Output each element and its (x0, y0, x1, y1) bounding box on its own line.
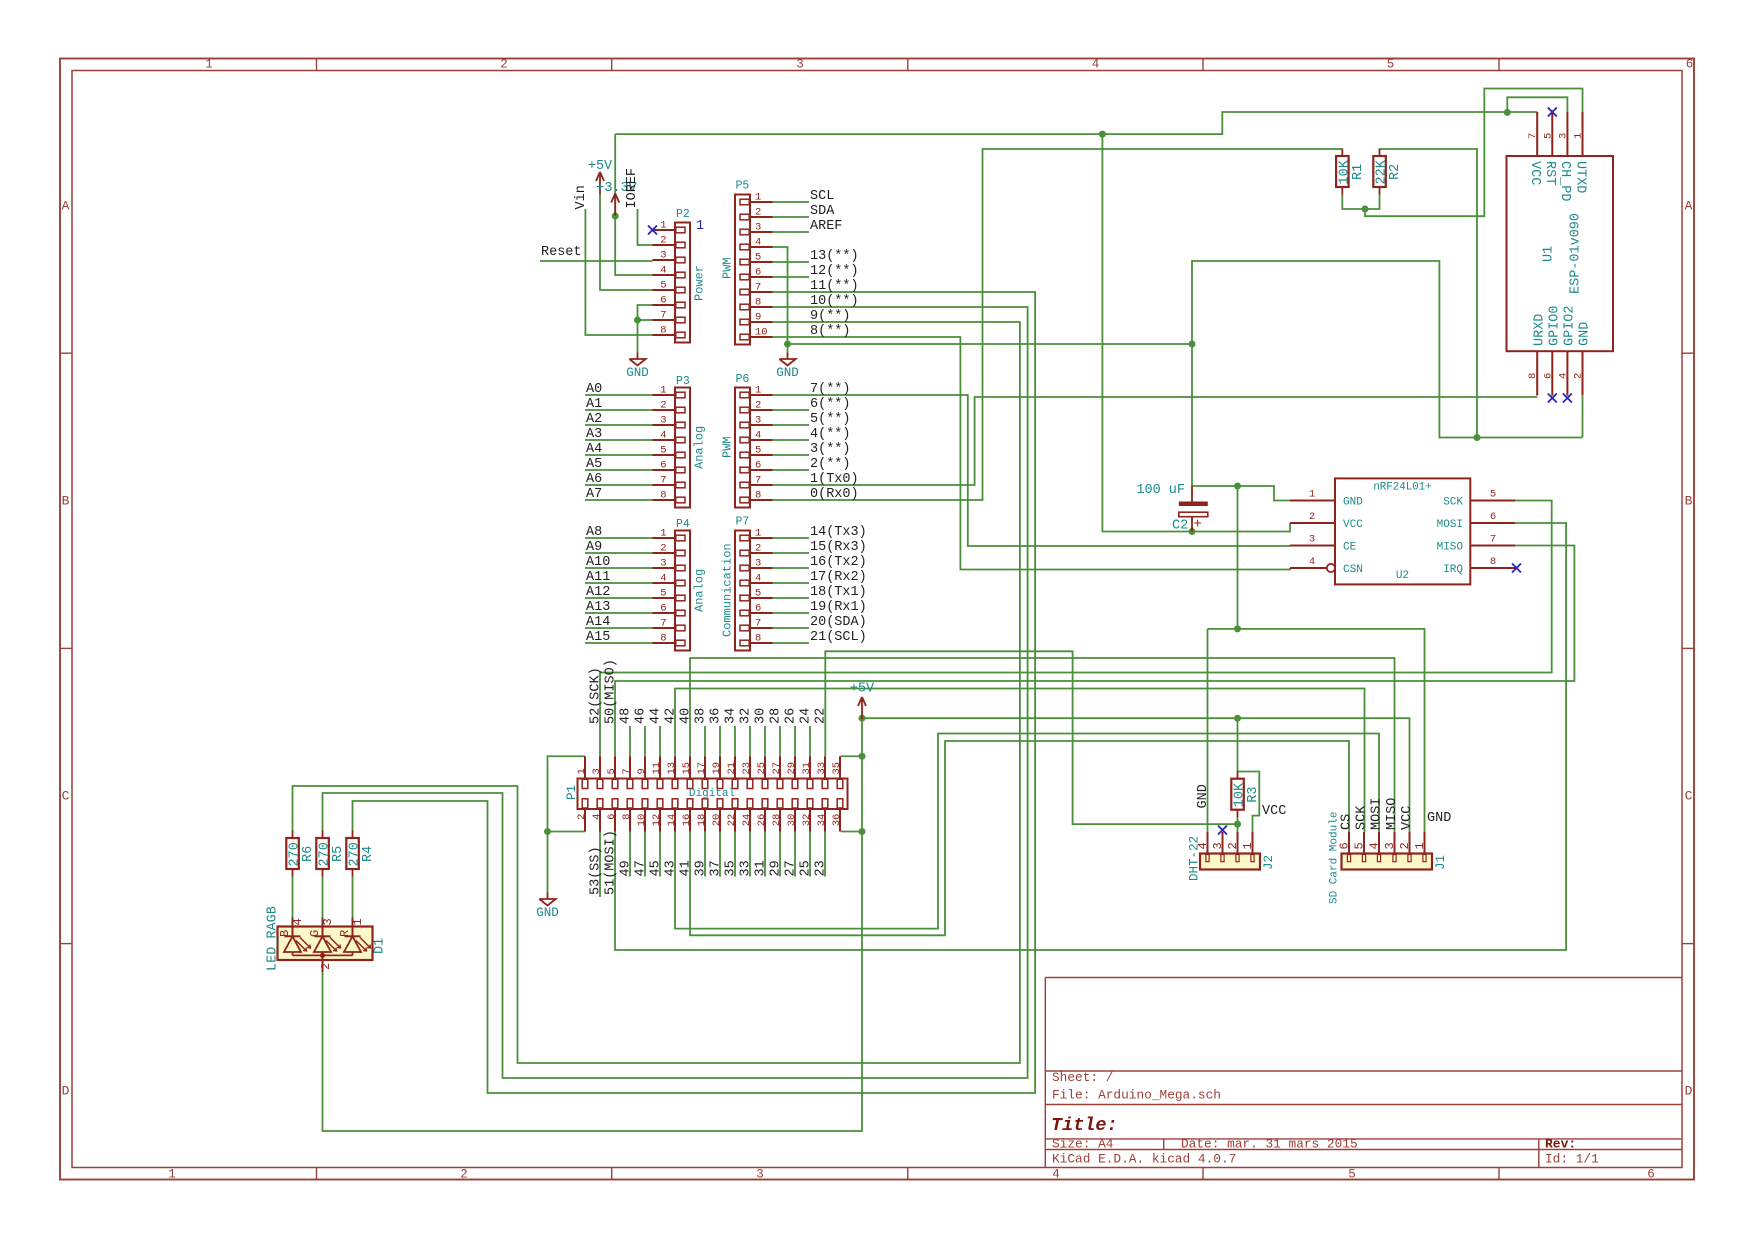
svg-text:GND: GND (1578, 322, 1593, 346)
svg-text:2: 2 (319, 963, 333, 970)
svg-text:J2: J2 (1262, 855, 1276, 870)
svg-text:21(SCL): 21(SCL) (810, 630, 867, 645)
svg-text:39: 39 (694, 860, 709, 876)
svg-text:nRF24L01+: nRF24L01+ (1373, 482, 1431, 494)
svg-text:4: 4 (660, 573, 666, 585)
svg-text:SCK: SCK (1355, 805, 1370, 830)
svg-text:17(Rx2): 17(Rx2) (810, 570, 867, 585)
svg-text:4: 4 (591, 814, 603, 820)
svg-text:22: 22 (726, 814, 738, 827)
svg-text:31: 31 (801, 762, 813, 775)
svg-text:23: 23 (814, 860, 829, 876)
svg-text:2(**): 2(**) (810, 457, 851, 472)
svg-text:0(Rx0): 0(Rx0) (810, 487, 859, 502)
svg-text:5: 5 (755, 588, 761, 600)
svg-text:2: 2 (660, 400, 666, 412)
svg-text:1: 1 (755, 385, 761, 397)
svg-text:50(MISO): 50(MISO) (604, 659, 619, 724)
svg-text:GND: GND (776, 366, 799, 380)
svg-text:A12: A12 (586, 585, 610, 600)
svg-text:R5: R5 (331, 846, 346, 862)
svg-text:Size: A4: Size: A4 (1052, 1136, 1114, 1151)
svg-text:C: C (1685, 789, 1693, 804)
svg-text:47: 47 (634, 860, 649, 876)
svg-text:34: 34 (724, 708, 739, 724)
svg-text:19: 19 (711, 762, 723, 775)
svg-text:4: 4 (1368, 842, 1382, 849)
svg-text:C2: C2 (1172, 519, 1188, 534)
svg-text:KiCad E.D.A. kicad 4.0.7: KiCad E.D.A. kicad 4.0.7 (1052, 1152, 1236, 1167)
svg-text:2: 2 (660, 235, 666, 247)
svg-text:7: 7 (1490, 534, 1496, 546)
svg-text:9: 9 (636, 768, 648, 774)
svg-text:2: 2 (1309, 511, 1315, 523)
svg-text:GND: GND (1343, 497, 1363, 509)
svg-text:2: 2 (460, 1168, 468, 1182)
svg-text:D1: D1 (373, 938, 388, 954)
svg-text:11(**): 11(**) (810, 279, 859, 294)
svg-text:1: 1 (1573, 133, 1585, 139)
svg-text:100 uF: 100 uF (1136, 483, 1185, 498)
svg-text:P7: P7 (736, 516, 750, 529)
svg-text:4: 4 (1092, 58, 1100, 72)
svg-text:13: 13 (666, 762, 678, 775)
svg-text:SDA: SDA (810, 204, 835, 219)
svg-text:PWM: PWM (721, 436, 735, 458)
svg-text:SD Card Module: SD Card Module (1329, 812, 1341, 904)
svg-text:32: 32 (801, 814, 813, 827)
svg-text:A4: A4 (586, 442, 602, 457)
svg-text:5: 5 (1542, 133, 1554, 139)
svg-text:4: 4 (1309, 556, 1315, 568)
svg-text:1: 1 (1413, 842, 1427, 849)
svg-text:IOREF: IOREF (625, 168, 640, 209)
svg-text:2: 2 (755, 207, 761, 219)
svg-text:MOSI: MOSI (1370, 798, 1385, 830)
svg-text:Reset: Reset (541, 245, 582, 260)
svg-text:4: 4 (660, 430, 666, 442)
svg-text:24: 24 (799, 708, 814, 724)
svg-text:VCC: VCC (1343, 519, 1363, 531)
svg-text:6: 6 (1542, 373, 1554, 379)
svg-text:A9: A9 (586, 540, 602, 555)
svg-text:+: + (1194, 517, 1202, 533)
svg-text:25: 25 (799, 860, 814, 876)
svg-text:20(SDA): 20(SDA) (810, 615, 867, 630)
svg-text:5(**): 5(**) (810, 412, 851, 427)
svg-text:6: 6 (755, 267, 761, 279)
svg-text:21: 21 (726, 762, 738, 775)
svg-text:29: 29 (769, 860, 784, 876)
svg-text:30: 30 (754, 708, 769, 724)
svg-text:6(**): 6(**) (810, 397, 851, 412)
svg-text:MISO: MISO (1437, 542, 1464, 554)
svg-text:Vin: Vin (574, 185, 589, 209)
svg-text:8: 8 (755, 633, 761, 645)
svg-text:5: 5 (660, 588, 666, 600)
svg-text:52(SCK): 52(SCK) (589, 667, 604, 724)
svg-text:6: 6 (606, 814, 618, 820)
svg-text:P3: P3 (676, 375, 690, 388)
svg-text:3: 3 (796, 58, 804, 72)
svg-text:3: 3 (660, 558, 666, 570)
svg-text:C: C (62, 789, 70, 804)
svg-text:Title:: Title: (1051, 1115, 1118, 1136)
svg-text:Digital: Digital (689, 788, 735, 800)
svg-text:A3: A3 (586, 427, 602, 442)
svg-text:1: 1 (696, 219, 704, 234)
svg-text:7: 7 (755, 282, 761, 294)
svg-text:40: 40 (679, 708, 694, 724)
svg-text:8: 8 (621, 814, 633, 820)
svg-text:3: 3 (1557, 133, 1569, 139)
svg-text:10: 10 (636, 814, 648, 827)
svg-text:3: 3 (1211, 842, 1225, 849)
svg-text:37: 37 (709, 860, 724, 876)
svg-text:5: 5 (755, 445, 761, 457)
svg-text:8(**): 8(**) (810, 324, 851, 339)
svg-text:+5V: +5V (588, 159, 613, 174)
svg-text:4: 4 (755, 573, 761, 585)
svg-text:1: 1 (755, 528, 761, 540)
svg-text:33: 33 (816, 762, 828, 775)
svg-text:1: 1 (660, 528, 666, 540)
svg-text:2: 2 (500, 58, 508, 72)
svg-text:15: 15 (681, 762, 693, 775)
svg-text:IRQ: IRQ (1443, 564, 1463, 576)
svg-text:Analog: Analog (693, 569, 707, 612)
svg-text:19(Rx1): 19(Rx1) (810, 600, 867, 615)
svg-text:URXD: URXD (1532, 314, 1547, 346)
svg-text:9: 9 (755, 312, 761, 324)
svg-text:A1: A1 (586, 397, 602, 412)
svg-text:B: B (62, 494, 70, 509)
svg-text:CE: CE (1343, 542, 1357, 554)
svg-text:VCC: VCC (1527, 161, 1542, 185)
svg-text:GPIO0: GPIO0 (1548, 305, 1563, 346)
svg-text:1: 1 (205, 58, 213, 72)
svg-text:8: 8 (1490, 556, 1496, 568)
svg-text:2: 2 (576, 814, 588, 820)
svg-text:8: 8 (660, 325, 666, 337)
svg-text:7: 7 (621, 768, 633, 774)
svg-text:P4: P4 (676, 518, 690, 531)
svg-text:16: 16 (681, 814, 693, 827)
svg-text:7: 7 (1527, 133, 1539, 139)
svg-text:3: 3 (591, 768, 603, 774)
svg-text:10(**): 10(**) (810, 294, 859, 309)
svg-text:2: 2 (1398, 842, 1412, 849)
svg-text:5: 5 (606, 768, 618, 774)
svg-text:31: 31 (754, 860, 769, 876)
svg-text:A2: A2 (586, 412, 602, 427)
svg-text:R: R (338, 930, 352, 937)
svg-text:A11: A11 (586, 570, 610, 585)
svg-text:VCC: VCC (1400, 806, 1415, 830)
svg-text:3(**): 3(**) (810, 442, 851, 457)
svg-text:U1: U1 (1542, 246, 1557, 262)
svg-text:SCK: SCK (1443, 497, 1463, 509)
svg-text:8: 8 (660, 490, 666, 502)
svg-text:32: 32 (739, 708, 754, 724)
svg-text:A: A (62, 199, 70, 214)
svg-text:26: 26 (784, 708, 799, 724)
svg-text:4: 4 (1557, 373, 1569, 379)
svg-text:12(**): 12(**) (810, 264, 859, 279)
svg-text:3: 3 (1309, 534, 1315, 546)
svg-text:2: 2 (1226, 842, 1240, 849)
svg-text:34: 34 (816, 814, 828, 827)
svg-text:46: 46 (634, 708, 649, 724)
svg-text:30: 30 (786, 814, 798, 827)
svg-text:18(Tx1): 18(Tx1) (810, 585, 867, 600)
svg-text:36: 36 (831, 814, 843, 827)
svg-text:7(**): 7(**) (810, 382, 851, 397)
svg-text:A7: A7 (586, 487, 602, 502)
svg-text:R2: R2 (1388, 164, 1403, 180)
svg-text:28: 28 (771, 814, 783, 827)
svg-text:3: 3 (755, 558, 761, 570)
svg-text:11: 11 (651, 762, 663, 775)
svg-text:6: 6 (755, 460, 761, 472)
svg-text:6: 6 (660, 460, 666, 472)
svg-text:P5: P5 (736, 180, 750, 193)
svg-text:6: 6 (1490, 511, 1496, 523)
svg-text:DHT-22: DHT-22 (1188, 836, 1202, 881)
svg-text:A13: A13 (586, 600, 610, 615)
svg-text:49: 49 (619, 860, 634, 876)
svg-text:1: 1 (168, 1168, 176, 1182)
svg-text:CSN: CSN (1343, 564, 1363, 576)
svg-text:R3: R3 (1246, 786, 1261, 802)
svg-text:2: 2 (1573, 373, 1585, 379)
svg-text:35: 35 (831, 762, 843, 775)
svg-text:1: 1 (660, 385, 666, 397)
svg-text:7: 7 (660, 618, 666, 630)
svg-text:6: 6 (1647, 1168, 1655, 1182)
svg-text:41: 41 (679, 860, 694, 876)
svg-text:RST: RST (1542, 161, 1557, 185)
svg-text:6: 6 (660, 295, 666, 307)
svg-text:MISO: MISO (1385, 798, 1400, 830)
svg-text:12: 12 (651, 814, 663, 827)
svg-text:4: 4 (291, 918, 305, 925)
svg-text:10: 10 (755, 327, 768, 339)
svg-text:3: 3 (321, 918, 335, 925)
svg-text:4: 4 (755, 237, 761, 249)
svg-text:R1: R1 (1351, 164, 1366, 180)
svg-text:22: 22 (814, 708, 829, 724)
svg-text:45: 45 (649, 860, 664, 876)
svg-text:5: 5 (1348, 1168, 1356, 1182)
svg-text:5: 5 (1387, 58, 1395, 72)
svg-text:A5: A5 (586, 457, 602, 472)
svg-text:4: 4 (1052, 1168, 1060, 1182)
svg-text:AREF: AREF (810, 219, 842, 234)
svg-text:35: 35 (724, 860, 739, 876)
svg-text:2: 2 (755, 543, 761, 555)
svg-text:3: 3 (1383, 842, 1397, 849)
svg-text:VCC: VCC (1262, 804, 1286, 819)
svg-text:1(Tx0): 1(Tx0) (810, 472, 859, 487)
svg-text:R4: R4 (361, 846, 376, 862)
svg-text:ESP-01v090: ESP-01v090 (1569, 213, 1584, 294)
svg-text:4: 4 (660, 265, 666, 277)
svg-text:1: 1 (1241, 842, 1255, 849)
svg-text:18: 18 (696, 814, 708, 827)
svg-text:1: 1 (755, 192, 761, 204)
svg-text:GPIO2: GPIO2 (1563, 305, 1578, 346)
svg-text:B: B (1685, 494, 1693, 509)
svg-text:3: 3 (660, 250, 666, 262)
svg-text:1: 1 (351, 918, 365, 925)
svg-text:43: 43 (664, 860, 679, 876)
svg-text:Power: Power (693, 265, 707, 301)
svg-text:R6: R6 (301, 846, 316, 862)
svg-text:GND: GND (1427, 811, 1451, 826)
svg-text:14(Tx3): 14(Tx3) (810, 525, 867, 540)
svg-text:2: 2 (755, 400, 761, 412)
svg-text:Sheet: /: Sheet: / (1052, 1070, 1113, 1085)
svg-text:36: 36 (709, 708, 724, 724)
svg-text:4: 4 (755, 430, 761, 442)
svg-text:5: 5 (660, 280, 666, 292)
svg-text:U2: U2 (1396, 570, 1409, 582)
svg-text:Analog: Analog (693, 426, 707, 469)
svg-text:Communication: Communication (721, 543, 735, 637)
svg-text:A10: A10 (586, 555, 610, 570)
svg-text:23: 23 (741, 762, 753, 775)
svg-text:5: 5 (1353, 842, 1367, 849)
svg-text:6: 6 (660, 603, 666, 615)
svg-text:J1: J1 (1434, 855, 1448, 870)
svg-text:51(MOSI): 51(MOSI) (604, 830, 619, 895)
svg-text:P1: P1 (565, 785, 579, 800)
svg-text:3: 3 (755, 415, 761, 427)
svg-text:GND: GND (626, 366, 649, 380)
svg-text:28: 28 (769, 708, 784, 724)
svg-text:8: 8 (1527, 373, 1539, 379)
svg-text:29: 29 (786, 762, 798, 775)
svg-text:1: 1 (660, 220, 666, 232)
svg-text:16(Tx2): 16(Tx2) (810, 555, 867, 570)
svg-text:17: 17 (696, 762, 708, 775)
svg-text:7: 7 (755, 475, 761, 487)
svg-text:5: 5 (660, 445, 666, 457)
svg-text:15(Rx3): 15(Rx3) (810, 540, 867, 555)
svg-text:2: 2 (660, 543, 666, 555)
svg-text:MOSI: MOSI (1437, 519, 1463, 531)
svg-text:Date: mar. 31 mars 2015: Date: mar. 31 mars 2015 (1181, 1136, 1358, 1151)
svg-text:SCL: SCL (810, 189, 834, 204)
svg-text:20: 20 (711, 814, 723, 827)
svg-text:25: 25 (756, 762, 768, 775)
svg-text:Id: 1/1: Id: 1/1 (1545, 1152, 1599, 1167)
svg-text:38: 38 (694, 708, 709, 724)
svg-text:A14: A14 (586, 615, 610, 630)
svg-text:26: 26 (756, 814, 768, 827)
svg-text:48: 48 (619, 708, 634, 724)
svg-text:24: 24 (741, 814, 753, 827)
svg-text:8: 8 (755, 490, 761, 502)
svg-text:A15: A15 (586, 630, 610, 645)
svg-text:A: A (1685, 199, 1693, 214)
svg-text:A8: A8 (586, 525, 602, 540)
svg-text:GND: GND (536, 906, 559, 920)
svg-text:7: 7 (660, 310, 666, 322)
svg-text:8: 8 (755, 297, 761, 309)
svg-text:D: D (1685, 1084, 1693, 1099)
svg-text:1: 1 (1309, 489, 1315, 501)
svg-text:14: 14 (666, 814, 678, 827)
svg-text:UTXD: UTXD (1572, 161, 1587, 193)
svg-text:7: 7 (660, 475, 666, 487)
svg-text:42: 42 (664, 708, 679, 724)
svg-text:27: 27 (784, 860, 799, 876)
svg-text:File: Arduino_Mega.sch: File: Arduino_Mega.sch (1052, 1088, 1221, 1103)
svg-text:Rev:: Rev: (1545, 1136, 1576, 1151)
svg-text:7: 7 (755, 618, 761, 630)
svg-text:44: 44 (649, 708, 664, 724)
svg-text:9(**): 9(**) (810, 309, 851, 324)
svg-text:A0: A0 (586, 382, 602, 397)
svg-text:3: 3 (660, 415, 666, 427)
svg-text:1: 1 (576, 768, 588, 774)
svg-text:6: 6 (755, 603, 761, 615)
svg-text:CH_PD: CH_PD (1557, 161, 1572, 202)
svg-text:P2: P2 (676, 208, 690, 221)
svg-text:A6: A6 (586, 472, 602, 487)
svg-text:3: 3 (755, 222, 761, 234)
svg-text:4(**): 4(**) (810, 427, 851, 442)
svg-text:3: 3 (756, 1168, 764, 1182)
svg-text:6: 6 (1686, 58, 1694, 72)
svg-text:5: 5 (755, 252, 761, 264)
svg-text:CS: CS (1340, 814, 1355, 830)
svg-text:33: 33 (739, 860, 754, 876)
svg-text:13(**): 13(**) (810, 249, 859, 264)
svg-text:LED_RAGB: LED_RAGB (266, 906, 281, 971)
svg-text:27: 27 (771, 762, 783, 775)
svg-text:+5V: +5V (850, 682, 875, 697)
svg-text:D: D (62, 1084, 70, 1099)
svg-text:8: 8 (660, 633, 666, 645)
svg-text:53(SS): 53(SS) (589, 846, 604, 895)
svg-text:G: G (308, 930, 322, 937)
svg-text:GND: GND (1196, 784, 1211, 808)
svg-text:P6: P6 (736, 373, 750, 386)
svg-text:PWM: PWM (721, 257, 735, 279)
svg-text:5: 5 (1490, 489, 1496, 501)
